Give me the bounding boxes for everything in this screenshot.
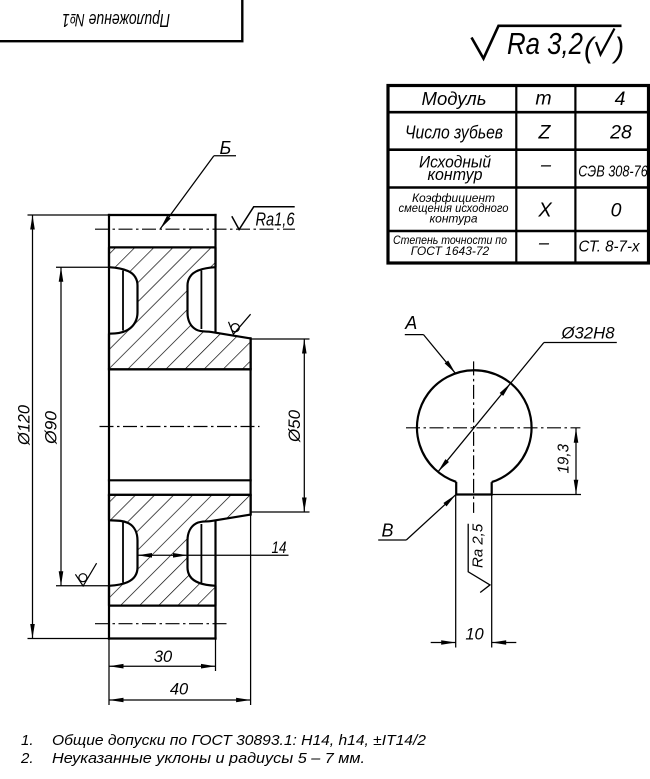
svg-text:СЭВ 308-76: СЭВ 308-76 (578, 164, 648, 181)
leader В (378, 493, 457, 540)
svg-text:контур: контур (428, 165, 483, 184)
svg-text:–: – (540, 155, 552, 175)
svg-text:Ø32Н8: Ø32Н8 (561, 324, 616, 343)
dimension Ø50 (251, 339, 310, 512)
svg-text:30: 30 (154, 648, 173, 666)
keyway slot (456, 482, 492, 495)
dimension 30 (109, 639, 216, 706)
svg-text:Ø50: Ø50 (286, 409, 304, 443)
svg-text:Модуль: Модуль (422, 88, 487, 109)
table row 1: Модуль m 4 (422, 88, 626, 111)
gear outline thick lines (109, 215, 251, 639)
svg-text:–: – (538, 233, 550, 253)
svg-text:40: 40 (170, 681, 189, 699)
rim right face lower (214, 522, 216, 639)
svg-text:Число зубьев: Число зубьев (405, 121, 503, 142)
keyway edge line (109, 479, 251, 481)
dimension 40 (109, 515, 251, 705)
dimension 19,3 (492, 428, 581, 495)
table row 4: Коэффициент смещения исходного контура X 0 (399, 191, 622, 226)
svg-text:Z: Z (538, 121, 552, 143)
dimension Ø32Н8 (438, 343, 617, 472)
dimension Ø90 (56, 267, 109, 586)
hatched lower half section (109, 495, 251, 606)
svg-text:0: 0 (611, 200, 622, 222)
svg-text:Б: Б (220, 138, 232, 158)
dimension 10 (keyway width) (431, 495, 517, 648)
roughness Ra1,6 on pitch (232, 207, 295, 230)
svg-text:19,3: 19,3 (556, 444, 573, 474)
title box (Приложение №1, rotated 180) (0, 0, 242, 41)
roughness Ra 2,5 in keyway (rotated) (468, 523, 490, 592)
svg-text:В: В (382, 521, 394, 541)
roughness circle mark near Ø90 lower end (75, 563, 96, 586)
table row 2: Число зубьев Z 28 (405, 121, 632, 143)
pitch line upper (95, 228, 295, 230)
svg-text:Ra 2,5: Ra 2,5 (470, 523, 487, 568)
dimension Ø120 (28, 215, 110, 639)
leader Б (158, 138, 236, 230)
keyway bottom line (109, 494, 251, 496)
dimension 14 (web thickness) (138, 554, 289, 556)
parameter table (388, 86, 649, 264)
table row 5: Степень точности по ГОСТ 1643-72 СТ. 8-7-х (393, 233, 640, 259)
left face (108, 215, 110, 639)
table row 3: Исходный контур СЭВ 308-76 (419, 153, 648, 185)
svg-text:m: m (535, 88, 551, 110)
tip circle top edge (109, 214, 216, 216)
tip circle bottom edge (109, 637, 216, 639)
svg-text:СТ. 8-7-х: СТ. 8-7-х (579, 239, 641, 256)
svg-text:Неуказанные уклоны и радиусы 5: Неуказанные уклоны и радиусы 5 – 7 мм. (52, 750, 365, 767)
groove inner visible edges (123, 271, 201, 583)
svg-text:Ø120: Ø120 (16, 404, 34, 446)
notes (20, 732, 427, 767)
svg-text:14: 14 (272, 539, 287, 557)
svg-text:Ra1,6: Ra1,6 (256, 210, 296, 230)
svg-text:ГОСТ 1643-72: ГОСТ 1643-72 (411, 244, 490, 258)
bore upper edge (109, 368, 251, 370)
svg-text:2.: 2. (20, 750, 34, 767)
hub right face (250, 338, 252, 514)
table grid (388, 86, 649, 264)
crosshair centerlines (406, 361, 580, 513)
svg-text:Общие допуски по ГОСТ 30893.1:: Общие допуски по ГОСТ 30893.1: Н14, h14,… (52, 732, 427, 749)
svg-text:Ø90: Ø90 (43, 410, 61, 445)
hatched upper half section (109, 247, 251, 369)
centerlines (95, 229, 295, 624)
svg-text:Приложение №1: Приложение №1 (62, 10, 170, 30)
svg-text:1.: 1. (21, 732, 34, 749)
roughness circle mark on hub slant (229, 314, 251, 334)
svg-text:контура: контура (429, 212, 477, 226)
svg-text:4: 4 (615, 88, 626, 110)
gear axis (100, 426, 260, 428)
pitch line lower (95, 623, 230, 625)
svg-text:28: 28 (609, 121, 632, 143)
svg-text:Х: Х (537, 200, 552, 222)
bore circle (417, 370, 532, 482)
general roughness mark Ra 3,2 (472, 26, 625, 65)
svg-text:10: 10 (465, 626, 484, 644)
leader А (404, 313, 457, 375)
svg-text:А: А (404, 313, 417, 333)
rim right face upper (214, 215, 216, 332)
svg-text:Ra 3,2: Ra 3,2 (507, 26, 583, 61)
